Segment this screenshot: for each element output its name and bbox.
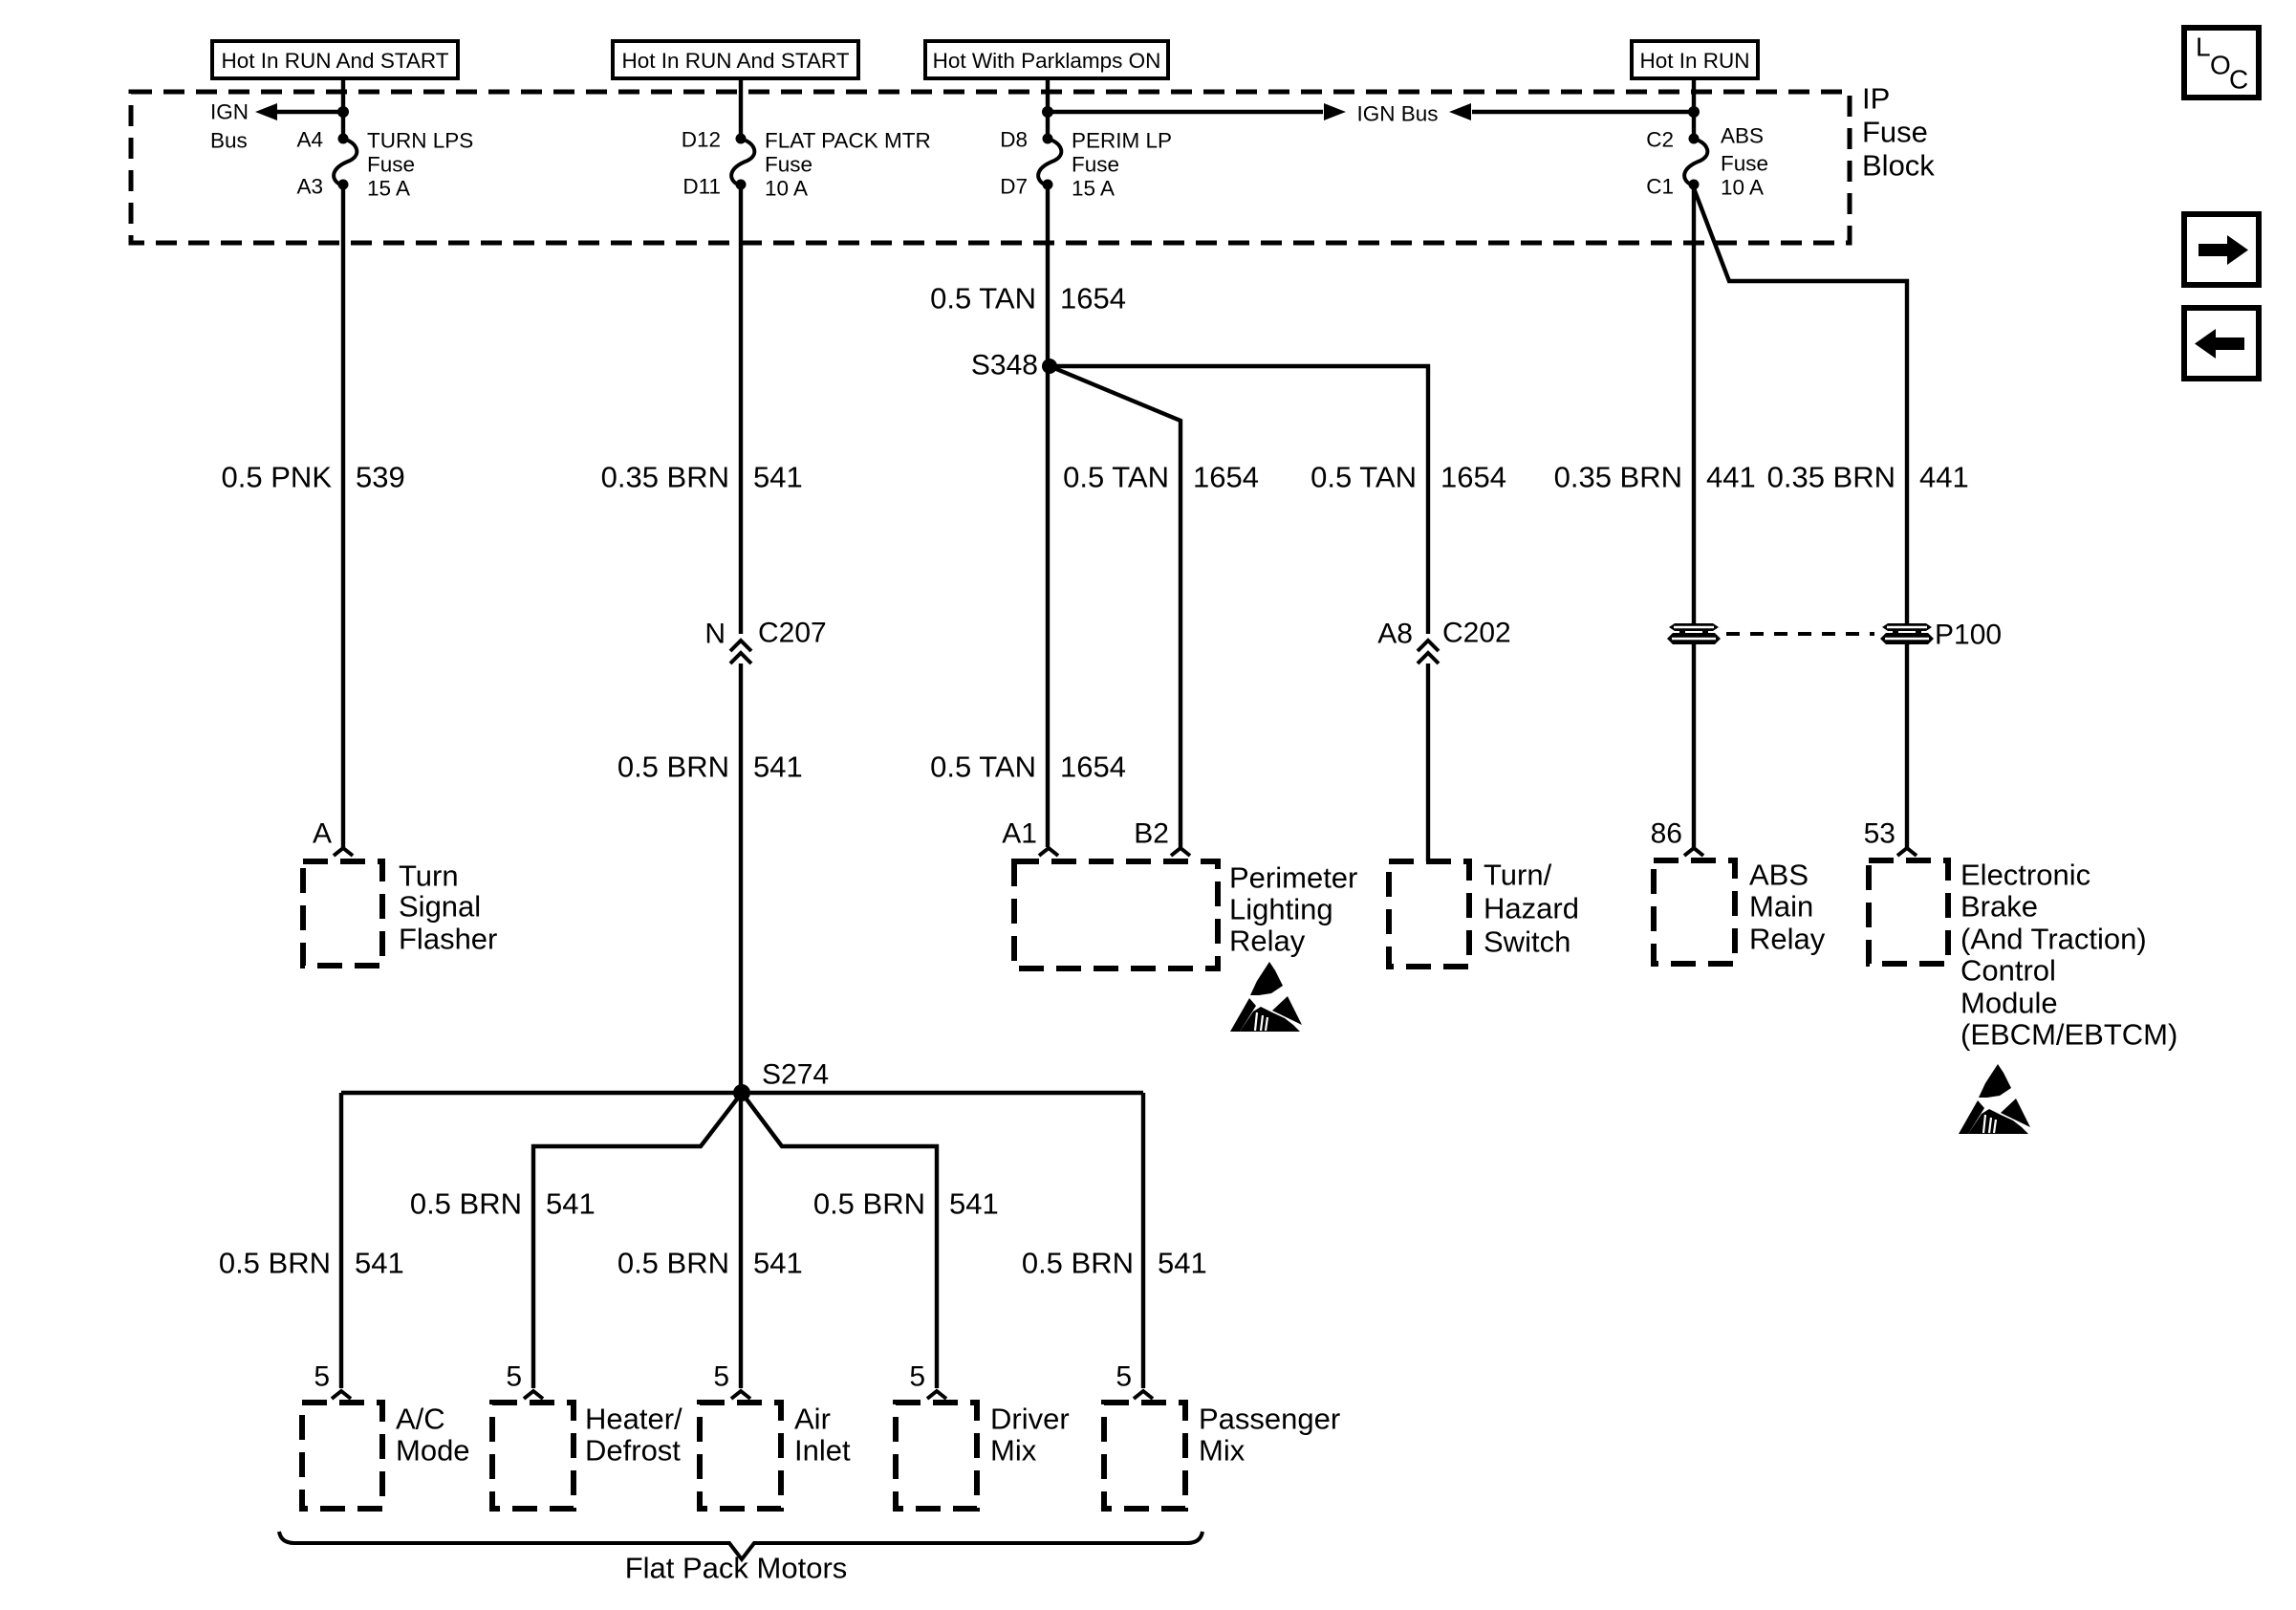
svg-text:O: O [2210,51,2231,80]
svg-text:541: 541 [1158,1247,1207,1280]
svg-text:Flat Pack Motors: Flat Pack Motors [625,1552,848,1585]
svg-text:5: 5 [1116,1361,1132,1393]
svg-text:(EBCM/EBTCM): (EBCM/EBTCM) [1960,1018,2177,1052]
svg-text:C207: C207 [758,618,827,649]
svg-text:P100: P100 [1935,620,2002,651]
svg-text:IGN: IGN [210,100,249,124]
svg-text:PERIM LP: PERIM LP [1072,129,1172,153]
svg-text:Turn: Turn [399,859,459,893]
svg-text:Relay: Relay [1749,923,1826,956]
svg-text:D7: D7 [1000,175,1028,199]
svg-text:15 A: 15 A [1072,177,1115,201]
svg-text:1654: 1654 [1060,751,1126,784]
svg-text:0.35 BRN: 0.35 BRN [1554,461,1682,494]
svg-text:Control: Control [1960,954,2056,988]
svg-text:1654: 1654 [1440,461,1506,494]
svg-text:D12: D12 [682,128,721,152]
svg-text:Hot In RUN And START: Hot In RUN And START [222,49,449,73]
svg-text:Hot In RUN: Hot In RUN [1639,49,1749,73]
svg-text:Bus: Bus [210,129,248,153]
svg-text:53: 53 [1864,818,1895,850]
svg-text:Hazard: Hazard [1484,892,1579,925]
svg-text:86: 86 [1651,818,1682,850]
svg-text:Fuse: Fuse [1072,153,1119,177]
svg-text:TURN LPS: TURN LPS [367,129,473,153]
svg-text:Hot With Parklamps ON: Hot With Parklamps ON [933,49,1161,73]
svg-text:0.35 BRN: 0.35 BRN [1767,461,1895,494]
svg-text:Hot In RUN And START: Hot In RUN And START [622,49,850,73]
svg-text:5: 5 [713,1361,729,1393]
svg-text:5: 5 [909,1361,925,1393]
svg-text:A3: A3 [296,175,323,199]
svg-text:0.5 PNK: 0.5 PNK [222,461,333,494]
svg-text:Signal: Signal [399,890,481,924]
svg-text:0.5 BRN: 0.5 BRN [410,1187,522,1221]
svg-text:541: 541 [546,1187,596,1221]
svg-text:IGN Bus: IGN Bus [1356,102,1438,126]
svg-text:Heater/: Heater/ [585,1403,682,1436]
svg-text:IP: IP [1862,82,1890,116]
svg-text:0.35 BRN: 0.35 BRN [601,461,729,494]
svg-text:5: 5 [506,1361,522,1393]
svg-text:Defrost: Defrost [585,1434,681,1468]
svg-text:Air: Air [794,1403,831,1436]
svg-text:0.5 TAN: 0.5 TAN [1310,461,1417,494]
svg-text:N: N [704,619,726,650]
svg-text:A/C: A/C [396,1403,445,1436]
svg-text:0.5 TAN: 0.5 TAN [930,751,1036,784]
svg-text:C1: C1 [1646,175,1674,199]
svg-text:541: 541 [753,461,803,494]
svg-text:Turn/: Turn/ [1484,859,1552,892]
svg-text:S348: S348 [971,350,1038,381]
svg-text:A: A [313,818,332,850]
svg-text:Fuse: Fuse [1721,152,1768,176]
svg-text:0.5 TAN: 0.5 TAN [930,282,1036,315]
svg-text:C2: C2 [1646,128,1674,152]
svg-text:1654: 1654 [1193,461,1259,494]
svg-text:Relay: Relay [1229,925,1306,958]
svg-text:441: 441 [1706,461,1756,494]
svg-text:Block: Block [1862,149,1935,183]
svg-text:541: 541 [753,751,803,784]
svg-text:Mix: Mix [1199,1434,1245,1468]
svg-text:Electronic: Electronic [1960,859,2090,892]
svg-text:B2: B2 [1134,818,1169,850]
svg-text:10 A: 10 A [1721,176,1764,200]
svg-text:FLAT PACK MTR: FLAT PACK MTR [765,129,931,153]
svg-text:Lighting: Lighting [1229,893,1333,926]
svg-text:5: 5 [314,1361,330,1393]
svg-text:0.5 BRN: 0.5 BRN [813,1187,925,1221]
svg-text:Module: Module [1960,987,2058,1020]
svg-text:Perimeter: Perimeter [1229,861,1357,895]
svg-text:Flasher: Flasher [399,923,497,956]
svg-text:Inlet: Inlet [794,1434,851,1468]
svg-text:A1: A1 [1002,818,1037,850]
svg-text:D8: D8 [1000,128,1028,152]
svg-text:D11: D11 [682,175,721,199]
svg-text:Mix: Mix [990,1434,1037,1468]
svg-text:Mode: Mode [396,1434,470,1468]
svg-text:Fuse: Fuse [367,153,415,177]
svg-text:ABS: ABS [1749,859,1809,892]
svg-text:10 A: 10 A [765,177,808,201]
svg-text:(And Traction): (And Traction) [1960,923,2147,956]
svg-text:0.5 TAN: 0.5 TAN [1063,461,1169,494]
svg-text:541: 541 [949,1187,999,1221]
svg-text:Switch: Switch [1484,925,1570,959]
svg-text:A8: A8 [1377,619,1413,650]
svg-text:Main: Main [1749,890,1813,924]
svg-text:C202: C202 [1442,618,1511,649]
svg-text:Fuse: Fuse [765,153,812,177]
svg-text:0.5 BRN: 0.5 BRN [1022,1247,1134,1280]
svg-text:0.5 BRN: 0.5 BRN [219,1247,331,1280]
svg-text:15 A: 15 A [367,177,410,201]
svg-text:Passenger: Passenger [1199,1403,1340,1436]
svg-text:441: 441 [1919,461,1969,494]
svg-text:541: 541 [355,1247,404,1280]
svg-text:C: C [2229,65,2248,95]
svg-text:S274: S274 [762,1059,829,1091]
svg-text:1654: 1654 [1060,282,1126,315]
svg-text:Brake: Brake [1960,890,2038,924]
svg-text:Driver: Driver [990,1403,1070,1436]
svg-text:541: 541 [753,1247,803,1280]
svg-text:A4: A4 [296,128,323,152]
svg-text:L: L [2196,33,2211,62]
svg-text:0.5 BRN: 0.5 BRN [617,751,729,784]
svg-text:0.5 BRN: 0.5 BRN [617,1247,729,1280]
svg-text:Fuse: Fuse [1862,116,1928,149]
svg-text:ABS: ABS [1721,124,1764,148]
svg-text:539: 539 [356,461,405,494]
